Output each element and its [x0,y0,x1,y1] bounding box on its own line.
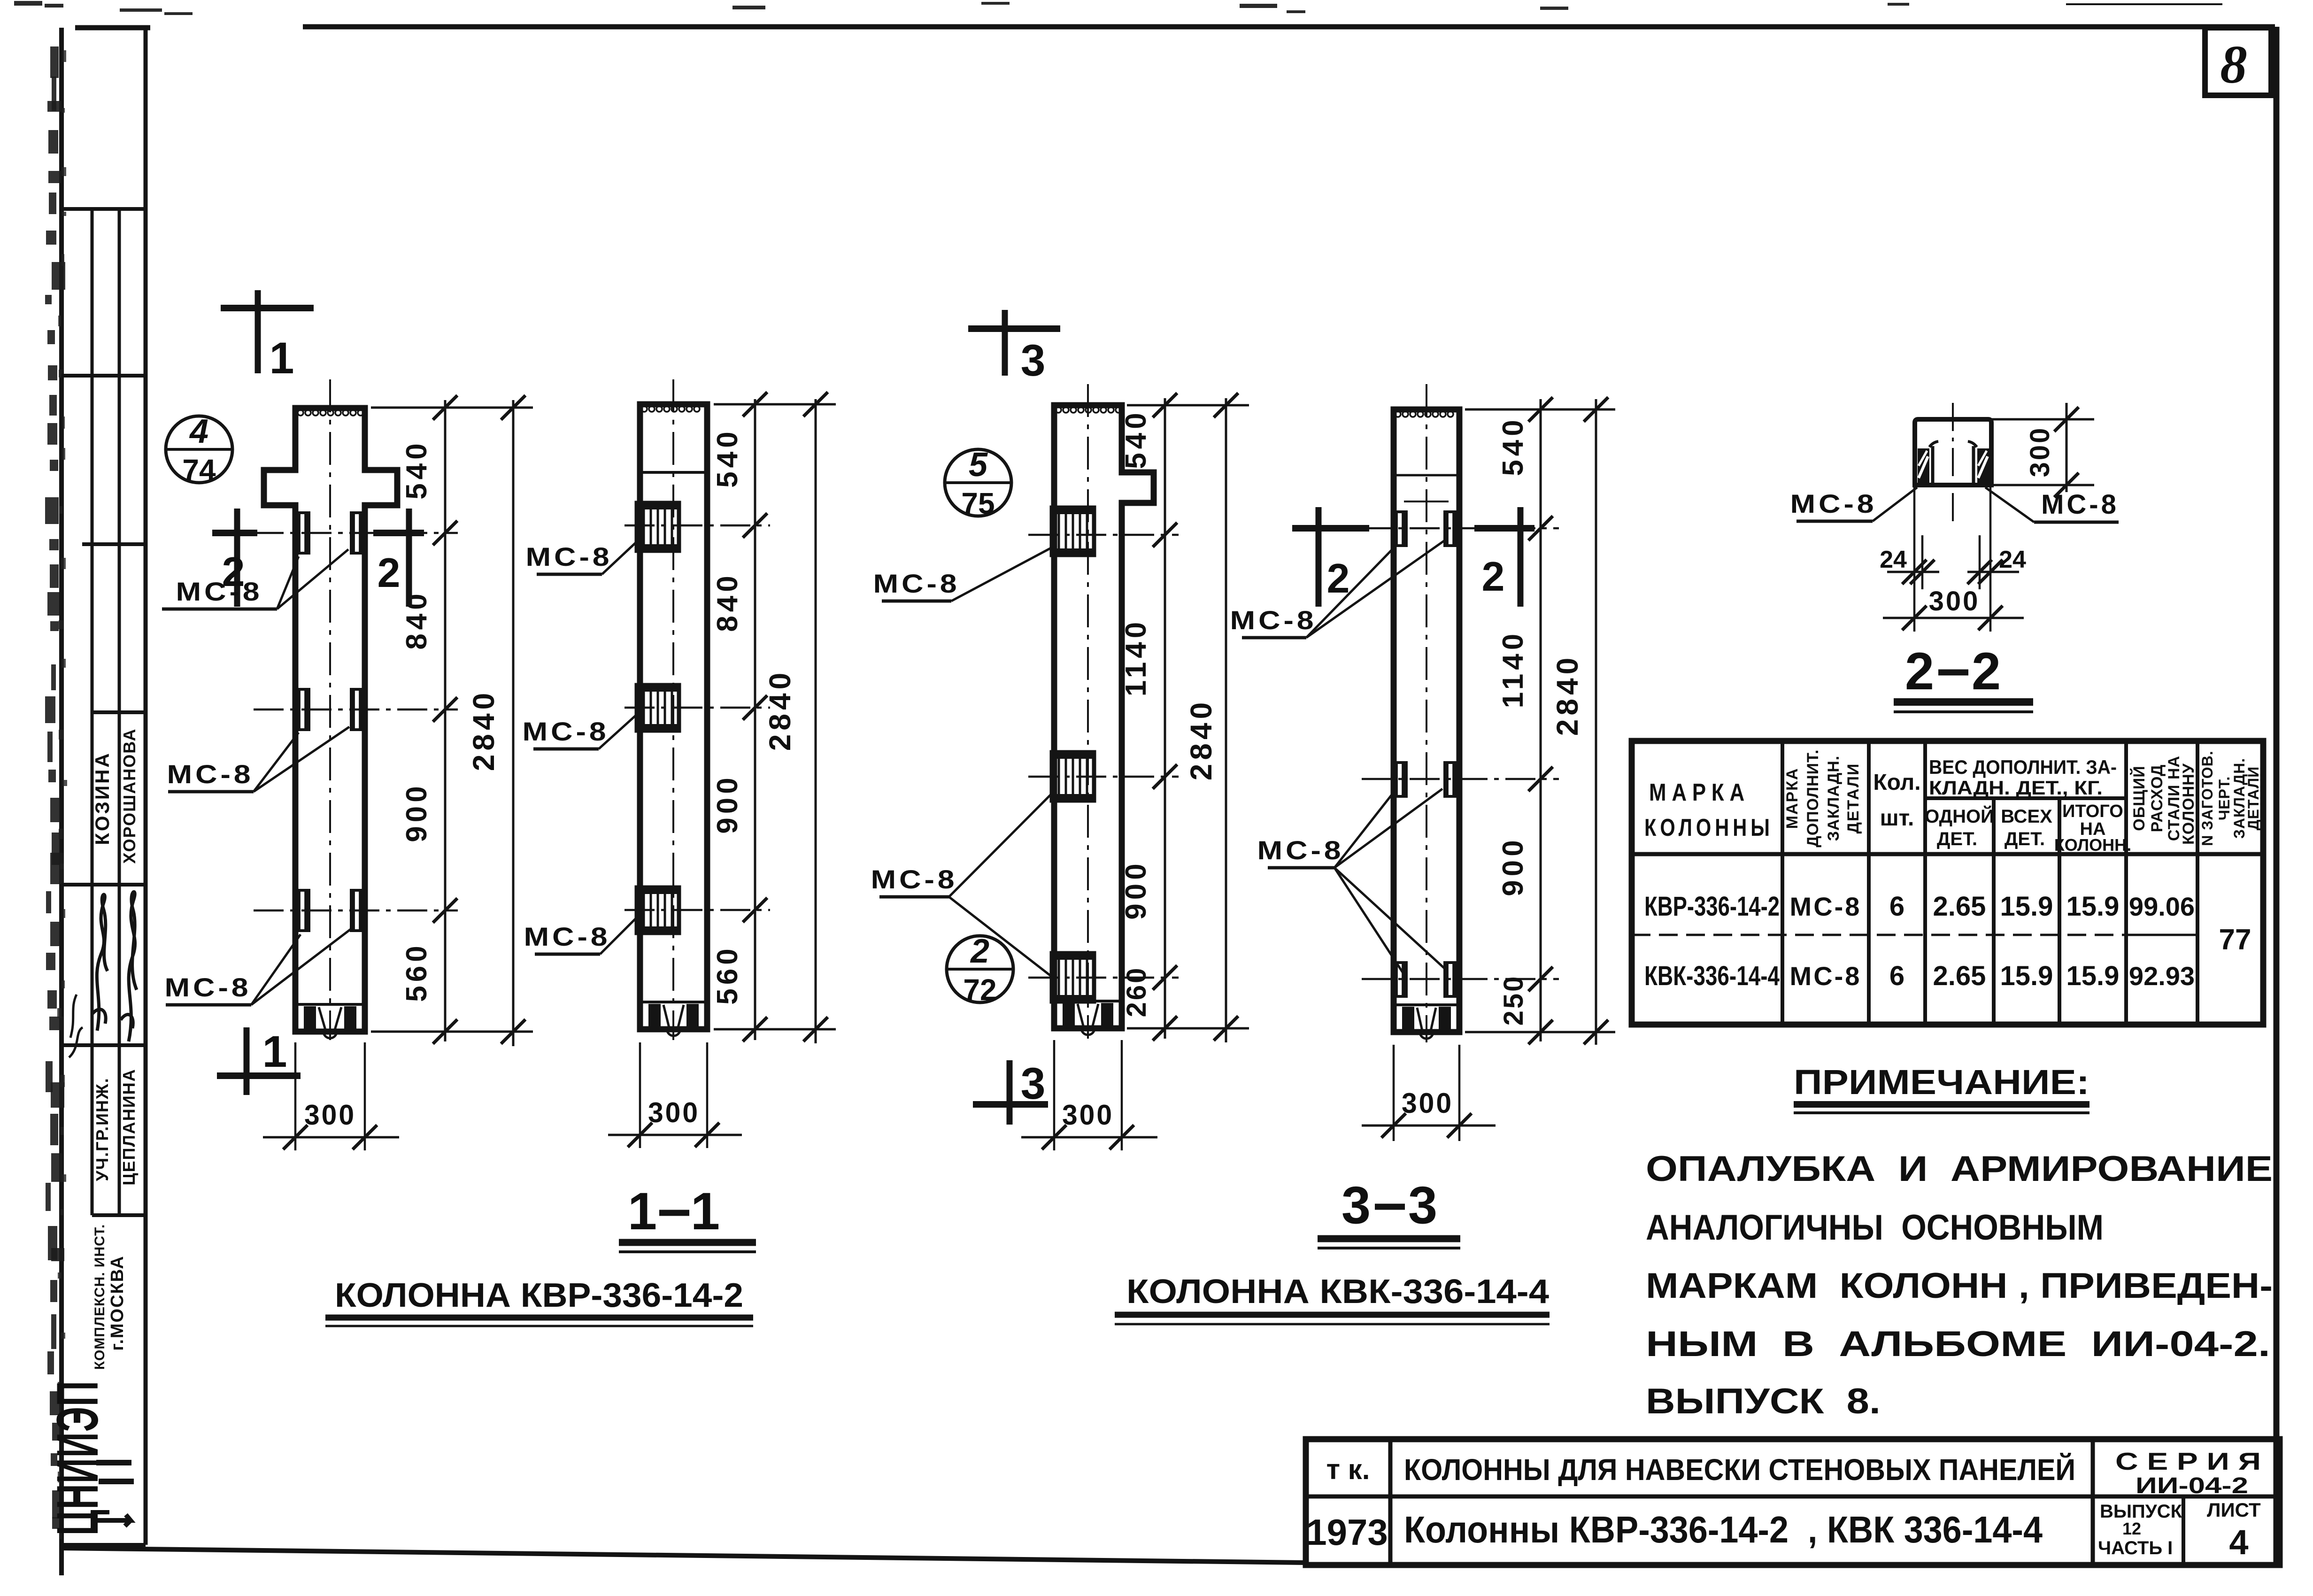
svg-text:840: 840 [711,572,744,632]
column 1 dimension lines [444,400,447,1041]
svg-text:ЧАСТЬ I: ЧАСТЬ I [2098,1538,2173,1558]
svg-text:КВР-336-14-2: КВР-336-14-2 [1644,891,1780,922]
svg-text:ПРИМЕЧАНИЕ:: ПРИМЕЧАНИЕ: [1794,1063,2089,1102]
svg-text:12: 12 [2122,1519,2141,1538]
section mark 3 top [1002,310,1008,376]
svg-text:ЗАКЛАДН.: ЗАКЛАДН. [1825,756,1843,841]
svg-text:24: 24 [1880,546,1907,573]
svg-text:92.93: 92.93 [2129,961,2195,991]
svg-text:300: 300 [1929,586,1980,617]
sheet frame bottom border [62,1548,1306,1563]
svg-text:Кол.: Кол. [1873,770,1920,795]
svg-text:ИТОГО: ИТОГО [2062,802,2123,821]
svg-text:МС-8: МС-8 [1790,961,1862,991]
svg-text:МАРКАМ КОЛОНН , ПРИВЕДЕН-: МАРКАМ КОЛОНН , ПРИВЕДЕН- [1646,1266,2273,1306]
svg-text:2: 2 [1905,642,1934,701]
svg-text:560: 560 [711,945,744,1004]
svg-text:МС-8: МС-8 [526,542,613,571]
svg-text:ДЕТАЛИ: ДЕТАЛИ [2245,766,2262,831]
svg-text:1: 1 [628,1182,657,1241]
svg-text:МС-8: МС-8 [524,922,611,951]
column 3 fork base [1054,1000,1122,1002]
svg-text:КОЛОННЫ: КОЛОННЫ [1644,814,1773,841]
svg-text:МС-8: МС-8 [165,972,252,1002]
svg-text:ОПАЛУБКА И АРМИРОВАНИЕ: ОПАЛУБКА И АРМИРОВАНИЕ [1646,1149,2273,1189]
svg-text:ОДНОЙ: ОДНОЙ [1925,805,1994,827]
svg-text:МС-8: МС-8 [873,569,960,598]
svg-text:4: 4 [2229,1523,2248,1562]
svg-text:2840: 2840 [1184,699,1218,780]
title block column СЕРИЯ [2091,1439,2095,1566]
svg-text:2840: 2840 [467,689,501,771]
section 2-2 dimension 24 left [1913,485,1916,632]
section 2-2 centerline [1952,403,1954,524]
svg-text:ВЕС ДОПОЛНИТ. ЗА-: ВЕС ДОПОЛНИТ. ЗА- [1929,756,2117,778]
column 3-3 embed plates level 3 [1393,961,1408,998]
svg-text:1: 1 [270,333,294,383]
svg-text:6: 6 [1889,961,1904,991]
svg-text:15.9: 15.9 [2000,961,2053,991]
svg-text:МАРКА: МАРКА [1649,779,1750,806]
column 3-3 top dotted row [1395,411,1401,417]
column 3-3 bottom dimension 300 [1393,1045,1395,1141]
title block outer box [1306,1439,2280,1565]
column 3-3 centerline [1426,384,1427,1042]
svg-text:77: 77 [2219,924,2251,956]
column 3-3 dimension lines [1540,399,1542,1041]
svg-text:ЦЕПЛАНИНА: ЦЕПЛАНИНА [119,1068,139,1185]
svg-text:300: 300 [304,1099,356,1131]
svg-text:КОМПЛЕКСН. ИНСТ.: КОМПЛЕКСН. ИНСТ. [92,1224,108,1370]
svg-text:ОБЩИЙ: ОБЩИЙ [2130,765,2148,831]
table outer border [1632,741,2263,1025]
svg-text:ВЫПУСК 8.: ВЫПУСК 8. [1646,1381,1881,1421]
section mark 2 right [406,509,412,607]
section mark 2 right column 3-3 [1518,507,1524,607]
svg-text:НЫМ В АЛЬБОМЕ ИИ-04-2.: НЫМ В АЛЬБОМЕ ИИ-04-2. [1646,1324,2270,1364]
svg-text:72: 72 [963,973,996,1007]
svg-text:3: 3 [1021,1059,1046,1109]
stamp signatures [92,894,108,1031]
column 1 fork base [295,1003,365,1006]
column 3-3 view outline [1394,409,1459,1032]
svg-text:ИИ-04-2: ИИ-04-2 [2136,1473,2248,1498]
svg-text:3: 3 [1408,1176,1437,1234]
svg-text:2: 2 [1482,553,1505,600]
scan noise top edge [2066,3,2222,5]
svg-text:КВК-336-14-4: КВК-336-14-4 [1644,961,1780,991]
svg-text:КОЗИНА: КОЗИНА [91,751,113,845]
section 2-2 left plate МС-8 [1918,448,1929,484]
svg-text:4: 4 [189,413,208,450]
svg-text:2: 2 [1327,555,1350,601]
svg-text:ХОРОШАНОВА: ХОРОШАНОВА [120,728,139,864]
section mark 2 left [234,509,240,607]
svg-text:МС-8: МС-8 [1790,892,1862,921]
svg-text:1: 1 [262,1027,287,1077]
detail circle 4/74 [166,416,232,483]
table row divider [1632,934,2126,936]
svg-text:99.06: 99.06 [2129,892,2195,921]
sheet frame right border [2274,27,2280,1567]
svg-text:МС-8: МС-8 [176,577,263,606]
column 3 hatched embed 3 [1052,953,1094,1002]
svg-text:УЧ.ГР.ИНЖ.: УЧ.ГР.ИНЖ. [93,1077,112,1181]
column 3 dimension lines [1164,398,1166,1039]
section mark 1 top [255,290,261,373]
column 3 top dotted row [1056,407,1061,413]
svg-text:КОЛОНН.: КОЛОНН. [2054,835,2131,855]
svg-text:24: 24 [1999,546,2026,573]
svg-text:900: 900 [1120,860,1152,919]
svg-text:2: 2 [970,933,989,970]
column 3-3 top section lines [1394,474,1459,477]
svg-text:КОЛОННУ: КОЛОННУ [2180,763,2197,845]
sheet frame left border [59,28,64,1575]
left title strip [144,28,148,1545]
svg-text:75: 75 [961,486,995,520]
svg-text:2.65: 2.65 [1933,891,1986,922]
column 1-1 level lines [625,524,770,527]
table sub-header split line [1925,796,2126,800]
svg-text:540: 540 [1120,409,1152,469]
svg-text:КОЛОННЫ ДЛЯ НАВЕСКИ СТЕНОВЫ: КОЛОННЫ ДЛЯ НАВЕСКИ СТЕНОВЫХ ПАНЕЛЕЙ [1404,1452,2075,1487]
svg-text:ЧЕРТ.: ЧЕРТ. [2216,776,2233,821]
svg-text:15.9: 15.9 [2000,891,2053,922]
column 3-3 embed plates level 2 [1393,761,1408,798]
svg-text:540: 540 [711,428,744,487]
column 1 embed plates level 3 [295,889,310,932]
column 1 bottom dimension 300 [294,1042,297,1150]
section mark 3 bottom [1007,1060,1013,1125]
svg-text:2840: 2840 [763,669,797,751]
column 3 level lines [1028,534,1179,536]
svg-text:МС-8: МС-8 [167,759,254,789]
svg-text:250: 250 [1498,975,1529,1026]
svg-text:900: 900 [401,782,433,842]
detail circle 5/75 [945,449,1011,516]
section 2-2 dimension 24 right [1989,485,1992,632]
svg-text:АНАЛОГИЧНЫ ОСНОВНЫМ: АНАЛОГИЧНЫ ОСНОВНЫМ [1646,1208,2104,1248]
scan marks bottom left [96,1460,131,1465]
column 3 bottom dimension 300 [1053,1040,1056,1150]
svg-text:300: 300 [1062,1099,1114,1131]
svg-text:1140: 1140 [1497,630,1529,709]
svg-text:74: 74 [182,453,216,487]
svg-text:5: 5 [969,446,988,484]
page number box 8 [2205,28,2271,95]
column КВР-336-14-2 elevation outline [264,408,397,1032]
svg-text:15.9: 15.9 [2066,961,2120,991]
column 3-3 embed plates level 1 [1393,510,1408,547]
svg-text:МС-8: МС-8 [1790,489,1877,518]
title block column тк [1388,1439,1393,1566]
svg-text:260: 260 [1121,966,1152,1018]
column 1-1 top dotted row [641,406,647,412]
table header bottom line [1632,852,2263,856]
column 3-3 level lines [1362,527,1559,530]
svg-text:840: 840 [401,590,433,649]
svg-text:КОЛОННА КВР-336-14-2: КОЛОННА КВР-336-14-2 [335,1277,743,1314]
section 2-2 right plate МС-8 [1977,448,1989,484]
svg-text:900: 900 [1497,836,1529,896]
svg-text:2.65: 2.65 [1933,961,1986,991]
detail circle 2/72 [947,936,1013,1002]
section 2-2 dimension 300 bottom [1883,617,2024,619]
column 1-1 hatched embed 1 [637,503,679,551]
svg-text:ДОПОЛНИТ.: ДОПОЛНИТ. [1804,749,1822,848]
svg-text:МС-8: МС-8 [871,864,958,894]
column 1 embed plates level 1 [295,511,310,555]
svg-text:МС-8: МС-8 [1230,605,1317,635]
column 1 embed plates level 2 [295,688,310,731]
svg-text:т к.: т к. [1326,1454,1370,1485]
column 1 centerline [329,379,331,1040]
svg-text:МС-8: МС-8 [523,717,609,746]
svg-text:ДЕТ.: ДЕТ. [1937,829,1977,849]
section mark 1 bottom [244,1027,250,1095]
svg-text:3: 3 [1021,336,1046,386]
svg-text:1140: 1140 [1120,618,1152,697]
svg-text:КОЛОННА КВК-336-14-4: КОЛОННА КВК-336-14-4 [1126,1273,1549,1311]
column 1 top dotted row [298,410,303,416]
column 1-1 dimension lines [754,399,756,1040]
svg-text:1973: 1973 [1306,1511,1388,1553]
svg-text:МС-8: МС-8 [1257,835,1344,865]
sheet frame top border [75,25,150,31]
svg-text:шт.: шт. [1880,806,1914,831]
svg-text:900: 900 [711,774,744,833]
svg-text:540: 540 [401,439,433,499]
svg-text:2840: 2840 [1550,654,1584,736]
svg-text:ДЕТ.: ДЕТ. [2005,829,2045,849]
svg-text:300: 300 [2025,426,2055,478]
section 2-2 square outline [1915,419,1991,485]
svg-text:МАРКА: МАРКА [1783,768,1801,829]
title block row divider [1306,1495,2280,1499]
svg-text:1: 1 [691,1182,720,1241]
svg-text:N ЗАГОТОВ.: N ЗАГОТОВ. [2199,750,2216,846]
scan noise left edge [50,46,59,78]
column 1-1 centerline [672,379,674,1040]
svg-text:КЛАДН. ДЕТ., КГ.: КЛАДН. ДЕТ., КГ. [1929,777,2103,799]
section mark 2 left column 3-3 [1316,507,1322,607]
svg-text:ЛИСТ: ЛИСТ [2207,1499,2261,1521]
column 1-1 top section line [640,471,707,474]
svg-text:г.МОСКВА: г.МОСКВА [108,1255,127,1350]
svg-text:2: 2 [1972,642,2001,701]
svg-text:540: 540 [1497,416,1529,476]
svg-text:560: 560 [401,942,433,1002]
column 1-1 bottom dimension 300 [639,1042,641,1148]
svg-text:ДЕТАЛИ: ДЕТАЛИ [1844,763,1862,834]
column 3 hatched embed 2 [1052,752,1094,801]
column 3-3 fork base [1394,1003,1459,1006]
svg-text:300: 300 [648,1097,700,1128]
column 1-1 hatched embed 2 [637,685,679,731]
column 1-1 fork base [640,1001,707,1003]
column 1-1 view outline [640,404,707,1029]
section 2-2 dimension 300 right [1991,418,2094,421]
svg-text:15.9: 15.9 [2066,891,2120,922]
svg-text:МС-8: МС-8 [2041,489,2119,520]
column КВК-336-14-4 elevation outline [1054,405,1154,1028]
svg-text:6: 6 [1889,891,1904,922]
table column lines [1781,741,1784,1025]
column 1-1 hatched embed 3 [637,887,679,933]
svg-text:ВСЕХ: ВСЕХ [2001,806,2052,827]
svg-text:Колонны КВР-336-14-2 , КВК 33: Колонны КВР-336-14-2 , КВК 336-14-4 [1404,1509,2043,1550]
column 3 hatched embed 1 [1052,508,1094,555]
svg-text:8: 8 [2220,35,2247,94]
svg-text:2: 2 [378,549,401,596]
column 3 centerline [1087,384,1089,1039]
title block column ЛИСТ divider [2182,1496,2185,1566]
svg-text:3: 3 [1342,1176,1371,1234]
svg-text:С Е Р И Я: С Е Р И Я [2115,1448,2261,1475]
svg-text:ЦНИИЭП: ЦНИИЭП [45,1380,110,1535]
svg-text:300: 300 [1402,1087,1453,1119]
svg-text:РАСХОД: РАСХОД [2148,764,2166,833]
column 1 level lines [254,532,458,534]
